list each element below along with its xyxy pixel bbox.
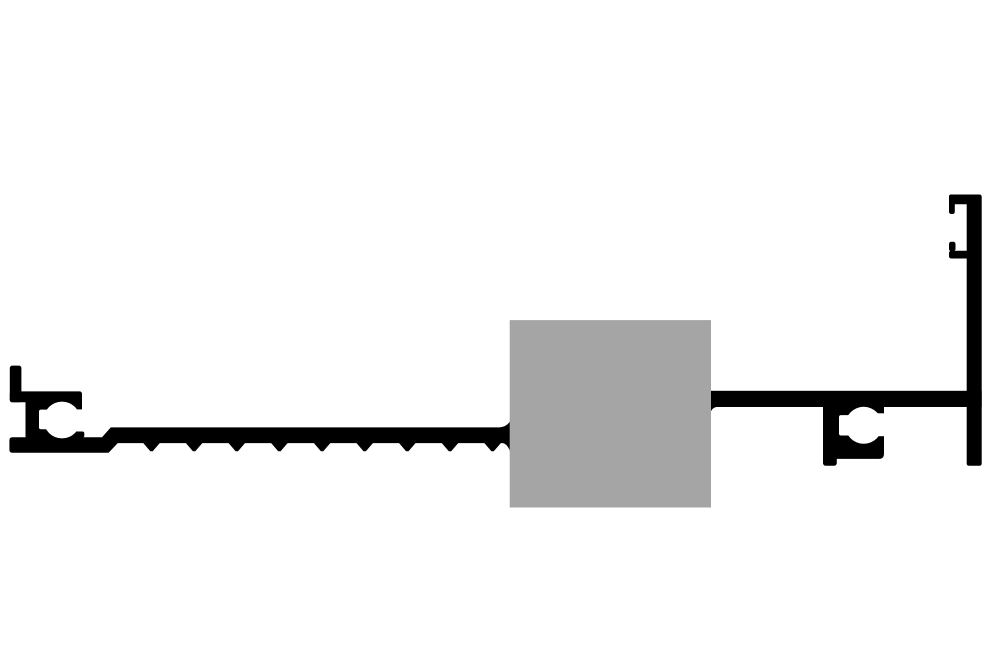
right screw channel bore [845,407,882,444]
right profile: top gasket fin [949,195,955,215]
fillet at bar / thermal-break joint [711,407,718,411]
left screw channel mouth [75,409,90,431]
left profile: base bar with ramp and serrated teeth [9,421,510,452]
left screw channel bore [44,402,81,439]
right profile: mid gasket arm [949,251,974,259]
right screw channel mouth [872,413,891,436]
right profile: horizontal bar [711,391,982,407]
left profile: screw-boss ring block [36,398,82,439]
left profile: top vertical fin [10,366,22,403]
left profile: top horizontal arm [10,391,82,402]
right profile: mid gasket fin [949,242,956,252]
left screw channel side slot [39,410,62,430]
right profile: screw-boss ring block [836,402,884,459]
right screw channel side slot [839,415,864,435]
right profile: vertical frame bar [967,195,982,466]
left profile: vertical web [26,398,38,443]
left profile: screw-boss lower lip [72,432,85,438]
thermal break block (gray) [510,320,711,507]
right profile: top gasket arm [949,195,974,205]
right profile: screw-boss left leg [823,402,837,466]
left profile: screw-boss upper jaw [70,394,82,409]
